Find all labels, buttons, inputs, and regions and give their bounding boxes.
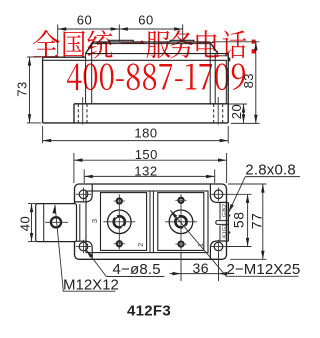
centerline bbox=[82, 97, 84, 125]
ext left bbox=[83, 170, 85, 184]
hidden mounting hole right (dashed) bbox=[214, 97, 223, 125]
leader + label 2.8x0.8 bbox=[229, 162, 300, 213]
body outer rectangle bbox=[75, 184, 227, 259]
mounting ear top-right bbox=[210, 185, 226, 203]
deck right inner vertical bbox=[209, 43, 211, 104]
svg-text:77: 77 bbox=[249, 213, 265, 230]
terminal deck top inner bbox=[94, 43, 210, 45]
svg-text:40: 40 bbox=[17, 216, 32, 231]
dim line bbox=[84, 175, 215, 177]
right edge bbox=[227, 53, 229, 123]
gate/aux hole bbox=[175, 198, 186, 203]
mounting ear top-left bbox=[75, 185, 93, 202]
mounting ear bottom-left bbox=[75, 241, 93, 259]
vertical centerline bbox=[118, 194, 120, 249]
label M12X12 bbox=[63, 276, 119, 293]
deck left inner vertical bbox=[91, 43, 93, 104]
fold line bbox=[43, 204, 45, 242]
svg-text:G2: G2 bbox=[222, 210, 228, 217]
side tab nub right edge bbox=[228, 58, 230, 62]
vertical centerline bbox=[180, 194, 182, 249]
deck left outer vertical bbox=[85, 54, 87, 104]
crosshair bbox=[45, 221, 68, 223]
svg-text:36: 36 bbox=[193, 260, 210, 276]
horizontal centerline bbox=[103, 221, 135, 223]
right deck diagonal bbox=[210, 42, 218, 53]
ext top bbox=[229, 103, 248, 105]
svg-text:G1: G1 bbox=[222, 224, 228, 231]
auxiliary terminal strip bbox=[216, 202, 231, 241]
svg-text:2−M12X25: 2−M12X25 bbox=[227, 261, 301, 278]
svg-text:73: 73 bbox=[14, 81, 29, 96]
dim line bbox=[255, 42, 257, 124]
tab slot inner line bbox=[79, 204, 81, 241]
dimension 83 right bbox=[212, 42, 260, 124]
mounting hole bottom-right bbox=[211, 240, 226, 254]
svg-text:K2: K2 bbox=[222, 204, 228, 211]
ext top bbox=[27, 56, 41, 58]
dimension 150 bbox=[74, 147, 227, 183]
terminal square 2 bbox=[158, 193, 204, 251]
svg-text:3: 3 bbox=[90, 219, 99, 223]
ext left bbox=[73, 153, 75, 183]
terminal deck top outer bbox=[94, 41, 210, 43]
dim line bbox=[243, 104, 245, 123]
dim line bbox=[43, 140, 229, 142]
ext line right stud bbox=[182, 24, 184, 39]
horizontal centerline bbox=[165, 221, 197, 223]
svg-text:60: 60 bbox=[77, 12, 92, 27]
hidden mounting hole left (dashed) bbox=[78, 97, 87, 125]
center divider lines bbox=[149, 191, 151, 253]
dim line bbox=[170, 273, 231, 275]
power terminal 2 bbox=[165, 194, 197, 249]
stud bump 2 bbox=[170, 40, 194, 42]
left edge bbox=[42, 57, 44, 123]
dimension 40 left of tab bbox=[17, 204, 38, 242]
svg-text:132: 132 bbox=[134, 163, 157, 178]
svg-text:20: 20 bbox=[229, 104, 244, 119]
leader M12X12 slanted centerline bbox=[52, 205, 63, 291]
gate/aux hole bbox=[114, 241, 125, 246]
svg-text:412F3: 412F3 bbox=[127, 303, 171, 320]
baseplate left edge bbox=[73, 104, 75, 123]
baseplate bbox=[74, 104, 228, 123]
ext right bbox=[214, 170, 216, 184]
terminal square 1 bbox=[101, 193, 147, 251]
left mounting tab bbox=[36, 204, 80, 242]
svg-text:4−ø8.5: 4−ø8.5 bbox=[113, 261, 161, 278]
dimension 60/60 top bbox=[58, 12, 183, 54]
dimension 77 bbox=[228, 184, 267, 259]
red hotline text line 1 bbox=[33, 30, 256, 58]
aux labels K2 G2 G1 K1 bbox=[222, 204, 228, 238]
ext right bbox=[227, 126, 229, 143]
dimension 180 bottom bbox=[43, 125, 229, 143]
long inner top line bbox=[43, 59, 227, 61]
red hotline text line 2 bbox=[67, 63, 245, 90]
right cap inner short line bbox=[219, 55, 227, 57]
centerline bbox=[217, 97, 219, 125]
gate/aux hole bbox=[114, 198, 125, 203]
mounting hole top-left bbox=[76, 188, 91, 202]
left cap top bbox=[43, 56, 86, 58]
side view: module body outline bbox=[43, 42, 229, 123]
deck plateau line bbox=[86, 53, 229, 55]
dimension 58 bbox=[226, 194, 252, 246]
dim line bbox=[74, 159, 227, 161]
svg-text:180: 180 bbox=[134, 125, 157, 140]
svg-text:150: 150 bbox=[135, 147, 158, 162]
svg-text:2: 2 bbox=[136, 243, 145, 247]
baseplate top bbox=[74, 103, 228, 105]
gate/aux hole bbox=[175, 242, 186, 247]
leader + label 2-M12X25 bbox=[170, 210, 300, 278]
ext left bbox=[180, 252, 182, 282]
ext right bbox=[218, 253, 220, 281]
svg-text:K1: K1 bbox=[222, 231, 228, 238]
leader + label 4-Ø8.5 bbox=[86, 250, 164, 278]
stud bump 1 bbox=[109, 40, 133, 42]
deck right outer vertical bbox=[214, 54, 216, 104]
right cap inner vertical bbox=[225, 60, 227, 104]
svg-text:2.8x0.8: 2.8x0.8 bbox=[245, 162, 296, 179]
ext line mid stud bbox=[118, 24, 120, 41]
mounting hole bottom-left bbox=[76, 240, 91, 254]
svg-text:58: 58 bbox=[231, 212, 247, 229]
dim line bbox=[29, 57, 31, 123]
ext top bbox=[212, 41, 260, 43]
ext left bbox=[42, 126, 44, 143]
bottom edge bbox=[43, 122, 229, 124]
svg-text:60: 60 bbox=[138, 12, 153, 27]
dimension 36 bbox=[170, 252, 231, 282]
housing inner rectangle bbox=[86, 191, 208, 253]
mounting ear bottom-right bbox=[210, 241, 226, 259]
dimension 20 right lower bbox=[229, 104, 248, 123]
ext bottom bbox=[27, 122, 41, 124]
ext line left stud bbox=[57, 24, 59, 54]
dim line bbox=[58, 28, 183, 30]
ext right bbox=[226, 153, 228, 183]
dimension 132 bbox=[84, 163, 215, 183]
svg-text:83: 83 bbox=[241, 73, 256, 88]
mounting hole top-right bbox=[211, 188, 226, 202]
ext bottom bbox=[231, 122, 260, 124]
power terminal 1 bbox=[103, 194, 135, 249]
dimension 73 left bbox=[14, 57, 41, 123]
left deck diagonal bbox=[86, 42, 94, 53]
